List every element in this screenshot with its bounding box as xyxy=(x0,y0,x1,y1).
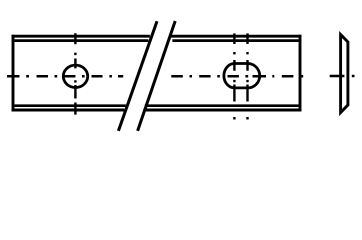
hole H1 vertical centerline xyxy=(74,33,76,114)
top outer edge xyxy=(12,35,302,38)
top inner line xyxy=(14,39,298,42)
side view profile (knife cross-section) xyxy=(341,35,348,113)
bottom inner line xyxy=(14,104,298,107)
right portion xyxy=(171,75,303,78)
main horizontal centerline (dash-dot) xyxy=(7,75,303,78)
hole H1 (round hole, squashed) xyxy=(63,65,87,87)
hole H2 left arc vertical centerline xyxy=(233,33,235,119)
break line 2 (right diagonal) xyxy=(138,21,176,131)
front view outline (knife body, interrupted by break lines) xyxy=(12,35,302,112)
right edge xyxy=(299,35,302,112)
left edge xyxy=(12,35,15,112)
hole H2 right arc vertical centerline xyxy=(246,33,248,119)
hole H2 (slot / obround hole) xyxy=(224,64,260,88)
inner bevel lines xyxy=(14,41,298,106)
break line 1 (left diagonal) xyxy=(118,21,157,131)
left portion xyxy=(7,75,123,78)
side view horizontal centerline xyxy=(330,75,355,77)
bottom outer edge xyxy=(12,109,302,112)
